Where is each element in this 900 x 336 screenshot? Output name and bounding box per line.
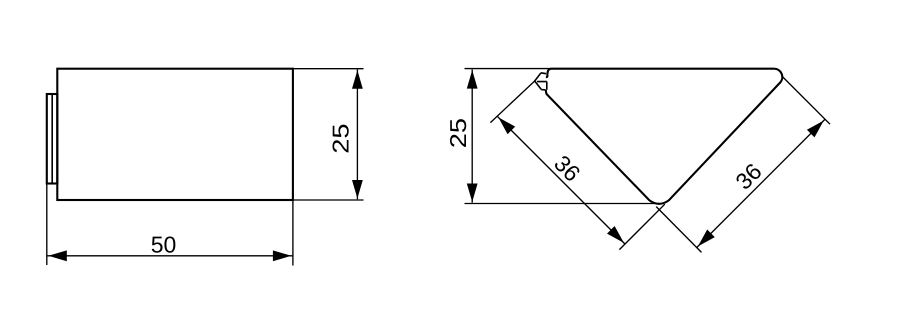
lamp body front view outline bbox=[546, 69, 782, 204]
bracket tab front view bbox=[535, 73, 547, 90]
lamp top edge with corner hook detail bbox=[546, 69, 774, 78]
extension line upper end of left 36 dim bbox=[490, 81, 534, 123]
extension line bottom of front 25 dim bbox=[465, 203, 660, 205]
extension line top of 25 dim bbox=[294, 68, 364, 70]
svg-text:25: 25 bbox=[445, 118, 471, 148]
bracket inner line bbox=[51, 94, 53, 184]
extension line right of 50 dim bbox=[292, 200, 294, 266]
mounting bracket side view bbox=[47, 94, 58, 184]
arrowhead 36 right upper bbox=[807, 121, 824, 138]
extension line top of front 25 dim bbox=[465, 68, 550, 70]
svg-text:50: 50 bbox=[151, 231, 177, 257]
housing body side view bbox=[57, 69, 293, 200]
extension line upper end of right 36 dim bbox=[781, 76, 830, 125]
arrowhead 36 right lower bbox=[698, 230, 715, 247]
dimension line 36 left bbox=[497, 116, 625, 244]
arrowhead 50 left bbox=[48, 250, 67, 261]
arrowhead 50 right bbox=[273, 250, 292, 261]
svg-text:36: 36 bbox=[549, 150, 585, 186]
arrowhead 25 bottom bbox=[352, 180, 363, 199]
svg-text:25: 25 bbox=[327, 123, 353, 153]
arrowhead 36 left upper bbox=[498, 117, 515, 134]
svg-text:36: 36 bbox=[730, 158, 766, 194]
extension line left of 50 dim bbox=[46, 184, 48, 266]
extension line lower end of right 36 dim bbox=[656, 207, 701, 253]
extension line lower end of left 36 dim bbox=[619, 204, 664, 249]
dimension line 50 bbox=[47, 255, 293, 257]
arrowhead 25 top bbox=[352, 70, 363, 89]
dimension line 25 front view bbox=[471, 70, 473, 203]
dimension line 36 right bbox=[697, 119, 825, 247]
extension line bottom of 25 dim bbox=[294, 199, 364, 201]
arrowhead front 25 bottom bbox=[467, 184, 478, 203]
arrowhead 36 left lower bbox=[607, 226, 624, 243]
dimension line 25 side view bbox=[356, 70, 358, 200]
arrowhead front 25 top bbox=[467, 70, 478, 89]
